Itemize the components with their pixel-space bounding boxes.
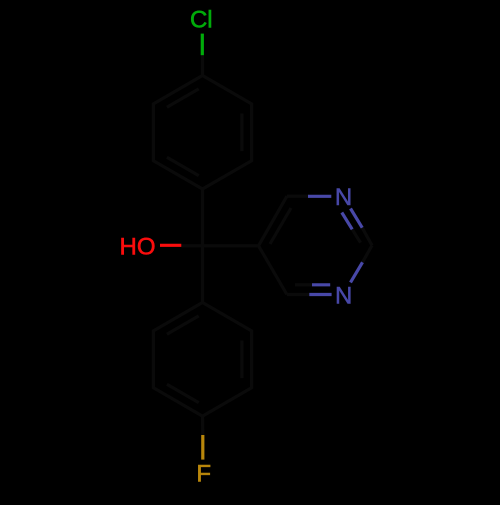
bond bottom ring to F (carbon half) <box>201 416 205 435</box>
svg-text:F: F <box>196 460 211 487</box>
bond N3=C2 main blue half <box>351 209 363 228</box>
bond C-F goldenrod half <box>201 435 204 460</box>
bond central C to O (carbon half) <box>181 244 202 247</box>
bottom ring inner double bonds <box>167 316 242 403</box>
bond C2-N1 blue half <box>351 262 363 282</box>
top ring inner double bonds <box>167 89 242 176</box>
bond central C to bottom ring <box>201 246 204 303</box>
bond C-O red half <box>160 244 181 247</box>
bond ring to Cl (carbon half) <box>201 55 204 75</box>
bond C-Cl green half <box>201 34 204 56</box>
svg-text:HO: HO <box>120 234 156 261</box>
svg-text:Cl: Cl <box>190 7 213 34</box>
top chlorophenyl ring <box>153 76 251 190</box>
pyrimidine carbon edges: C5-C4, C5-C6, C4=C5 inner <box>259 196 292 294</box>
svg-text:N: N <box>335 283 352 310</box>
bond central C to pyrimidine C5 <box>203 244 259 247</box>
bond C4-N3 blue half <box>308 195 331 198</box>
bond N1=C6 inner blue half <box>312 283 330 286</box>
bottom fluorophenyl ring <box>153 303 251 417</box>
carbon halves of N bonds <box>287 196 312 294</box>
wire: carbon skeleton (near-black like target) <box>153 55 372 435</box>
bond N3=C2 inner blue half <box>342 213 352 230</box>
bond N1=C6 main blue half <box>309 293 331 296</box>
bond top ring to central C <box>201 189 204 246</box>
svg-text:N: N <box>335 184 352 211</box>
